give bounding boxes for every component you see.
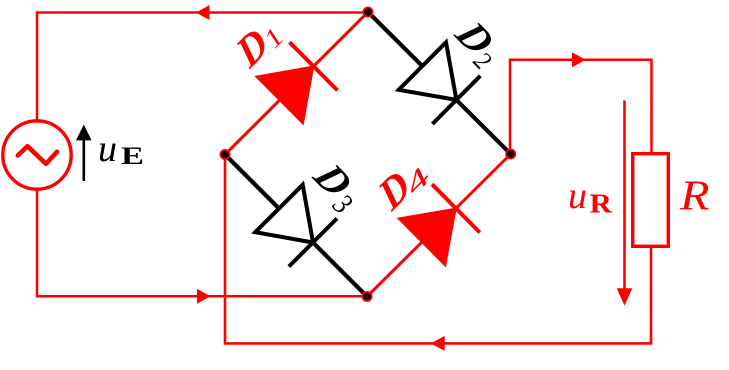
sine symbol — [18, 146, 57, 164]
node top — [363, 7, 374, 18]
diode D3 — [255, 185, 313, 243]
label D3 — [301, 150, 371, 220]
arrowhead right on lower source wire — [197, 289, 211, 304]
diode D3 branch wire (black) — [225, 155, 367, 297]
AC source circle — [3, 121, 71, 189]
diode D2 — [399, 42, 457, 100]
arrowhead right on top-right wire — [572, 52, 586, 67]
diode D4 branch wire (red) — [367, 154, 511, 297]
u_E arrow — [83, 138, 86, 181]
arrowhead left on top wire — [196, 5, 210, 20]
wire right node up and over to resistor top — [510, 60, 652, 154]
svg-text:R: R — [679, 174, 710, 220]
u_R arrow — [623, 101, 626, 291]
label D1 — [222, 10, 290, 78]
diode D2 branch wire (black) — [368, 12, 511, 154]
resistor R — [633, 154, 669, 247]
wire left node down to bottom rail to resistor bottom — [225, 155, 651, 344]
node bottom — [362, 291, 373, 302]
label D2 — [443, 8, 511, 76]
node right — [505, 149, 516, 160]
svg-text:E: E — [121, 143, 144, 170]
diode D4 — [398, 208, 456, 266]
label D4 — [364, 149, 436, 221]
arrowhead left on bottom rail — [431, 336, 445, 351]
svg-text:u: u — [568, 175, 587, 217]
wire top-left from source to top node — [37, 13, 368, 121]
svg-text:u: u — [98, 128, 117, 170]
wire source bottom to bottom node — [37, 190, 367, 296]
diode D1 branch wire (red) — [225, 12, 368, 155]
svg-text:R: R — [590, 189, 613, 219]
node left — [220, 149, 231, 160]
diode D1 — [256, 66, 314, 124]
